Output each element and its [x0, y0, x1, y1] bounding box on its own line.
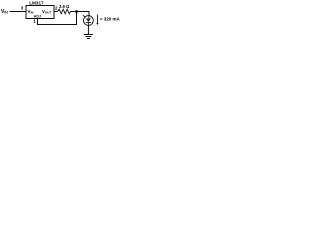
wire feedback up to junction: [76, 12, 78, 26]
wire ADJ down: [37, 18, 39, 25]
resistor R1 3.9 ohm zigzag: [58, 9, 71, 14]
wire LED to ground: [87, 25, 89, 34]
svg-text:LM317: LM317: [29, 1, 44, 6]
svg-text:1: 1: [33, 19, 36, 24]
wire corner down to LED: [88, 11, 90, 16]
op-amp U1 LM317 regulator body: [26, 6, 54, 19]
wire resistor to corner: [71, 11, 90, 13]
svg-text:≈ 320 mA: ≈ 320 mA: [100, 16, 120, 21]
svg-text:3.9 Ω: 3.9 Ω: [59, 4, 70, 9]
svg-text:3: 3: [21, 6, 24, 11]
svg-text:2: 2: [55, 6, 58, 11]
wire regulator to resistor: [54, 11, 58, 13]
junction node dot: [75, 10, 78, 13]
svg-text:VOUT: VOUT: [42, 9, 51, 15]
ground: [84, 35, 93, 39]
node VIN input label: [1, 9, 8, 15]
current arrow: [96, 15, 98, 26]
LED D1: [83, 15, 93, 25]
svg-text:VIN: VIN: [28, 9, 34, 15]
wire input to regulator: [10, 11, 27, 13]
svg-text:VIN: VIN: [1, 9, 8, 15]
wire ADJ feedback horizontal: [37, 24, 77, 26]
